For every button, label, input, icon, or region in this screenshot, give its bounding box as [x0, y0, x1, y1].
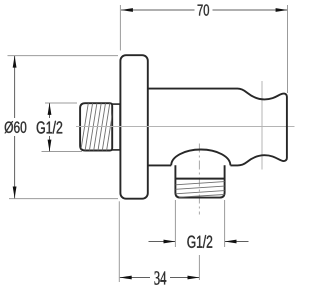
outlet body: [175, 165, 224, 197]
dim G1/2 outlet left extension line: [174, 200, 176, 247]
inlet collar: [112, 104, 120, 150]
dim 70 text: [198, 4, 209, 15]
dim 34 text: [154, 271, 166, 284]
dim 70 right extension line: [287, 5, 289, 93]
dim 34 arrows: [120, 276, 132, 280]
dim O60 arrows: [13, 56, 17, 68]
holder vertical centerline: [261, 81, 263, 170]
outlet dash-dot centerline: [198, 144, 200, 215]
dim G1/2 inlet text: [37, 121, 63, 134]
inlet thread G1/2 body: [80, 103, 112, 150]
inlet thread hatch lines: [81, 103, 114, 150]
dim G1/2 outlet line left tail: [149, 241, 176, 243]
horizontal centerline: [76, 126, 295, 128]
dim 34 line: [120, 277, 150, 279]
dim G1/2 inlet arrows: [48, 103, 52, 115]
dim O60 top extension line: [8, 55, 119, 57]
outlet thread top edge: [175, 178, 224, 180]
dim G1/2 outlet text: [187, 235, 212, 248]
dim G1/2 inlet line: [49, 103, 51, 118]
dim 34 right extension line: [198, 255, 200, 280]
dim O60 text: [5, 121, 27, 133]
dim G1/2 outlet line right tail: [225, 241, 249, 243]
outlet dome: [171, 150, 230, 166]
body outline with neck and end cap: [148, 89, 287, 166]
dim G1/2 outlet right extension line: [224, 200, 226, 247]
dim 34 left extension line: [118, 201, 120, 282]
dim 70 left extension line: [119, 5, 121, 51]
dim 70 line: [121, 9, 195, 11]
wall flange plate: [120, 55, 147, 199]
dim O60 line: [14, 56, 16, 118]
dim O60 bottom extension line: [9, 198, 118, 200]
dim G1/2 inlet top extension line: [45, 102, 77, 104]
dim 70 arrows: [121, 8, 133, 12]
outlet thread hatch lines: [175, 182, 224, 198]
dim G1/2 outlet arrows: [164, 240, 176, 244]
dim G1/2 inlet bottom extension line: [42, 151, 83, 153]
